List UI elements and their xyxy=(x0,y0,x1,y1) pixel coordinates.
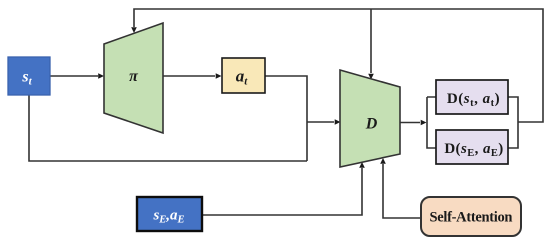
svg-text:D: D xyxy=(365,115,378,132)
arrowhead into D left xyxy=(335,119,341,125)
svg-text:π: π xyxy=(129,68,139,85)
arrowhead into D top xyxy=(368,74,374,80)
arrowhead into D bottom (right) xyxy=(380,158,386,164)
arrowhead into pi top xyxy=(131,27,137,33)
output box D(s_E, a_E) xyxy=(436,130,508,164)
arrowhead into pi left xyxy=(98,73,104,79)
wire: s_t bottom path xyxy=(29,95,307,161)
self-attention module box xyxy=(421,197,521,236)
wire: self-attention into D bottom xyxy=(383,164,421,218)
wire: s_t to pi xyxy=(50,75,98,77)
action box a_t xyxy=(222,58,265,93)
wire: a_t output down to junction xyxy=(265,76,307,161)
wire: feedback loop from outputs bracket to pi (top wire) xyxy=(134,9,543,122)
policy network pi (trapezoid) xyxy=(104,23,163,133)
state box s_t xyxy=(8,57,50,95)
svg-text:Self-Attention: Self-Attention xyxy=(430,210,513,226)
wire: drop into D top xyxy=(370,9,372,73)
expert pair box s_E,a_E xyxy=(137,197,202,231)
arrowhead into a_t xyxy=(216,73,222,79)
wire: pi to a_t xyxy=(163,75,215,77)
wire: expert pair s_E,a_E into D bottom xyxy=(202,168,362,215)
wire: output bracket around D(s,a) boxes xyxy=(427,97,518,148)
wire: D output xyxy=(400,122,420,124)
discriminator D (trapezoid) xyxy=(340,70,400,167)
arrowhead into D bottom (left) xyxy=(359,162,365,168)
arrowhead into bracket xyxy=(421,120,427,126)
wire: junction into D left xyxy=(307,121,334,123)
output box D(s_t, a_t) xyxy=(436,80,508,114)
